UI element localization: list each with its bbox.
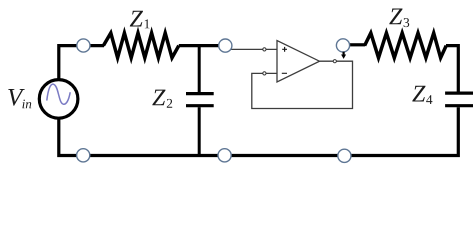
label Z4 [412,86,432,104]
pin circle: inverting input [263,72,266,75]
node F (output port, bottom) [338,149,351,162]
label Vin [8,89,31,108]
node D (input port, bottom) [77,149,90,162]
pin circle: output [333,60,336,63]
pin circle: non-inverting input [263,48,266,51]
wire: Z2 bottom plate down to ground rail [198,107,201,155]
capacitor Z2 [186,94,214,106]
op-amp U1 triangle [277,41,320,83]
wire: Z3 to right corner down to Z4 [446,46,458,92]
label Z3 [389,9,409,28]
label Z2 [152,90,172,108]
op-amp U1 non-inverting input wire [231,48,277,50]
wire: Z1 to node junction and on to middle node [179,44,225,47]
op-amp plus sign [282,47,287,52]
node C (op-amp output node) [336,39,349,52]
wire: junction down to Z2 top plate [198,46,201,93]
sine wave inside source [47,84,70,104]
label Z1 [130,11,150,29]
voltage source Vin circle [39,80,78,119]
node B (mid node after Z1) [219,39,232,52]
arrow stub from node C down to output wire [343,52,345,55]
node E (mid bottom) [218,149,231,162]
resistor Z3 [365,33,447,58]
op-amp minus sign [282,72,287,74]
wire: ground rail (bottom) with left riser from source [59,107,459,155]
wire: source top lead up and across to Z1 [59,46,104,81]
op-amp U1 inverting input wire + feedback loop to output [252,61,353,108]
node A (input port, top) [77,39,90,52]
resistor Z1 [103,33,178,58]
wire: output node to Z3 [349,43,365,46]
capacitor Z4 [445,93,473,106]
